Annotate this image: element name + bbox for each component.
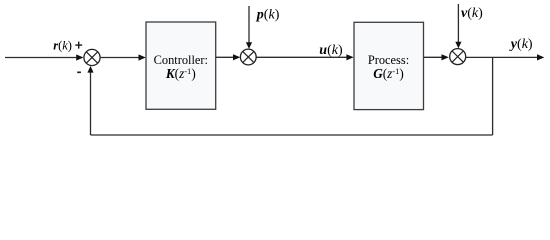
process block U2: G(z^-1) xyxy=(354,22,424,109)
wire input r(k) into summing junction S1 xyxy=(5,54,84,60)
feedback bottom wire xyxy=(91,134,493,136)
feedback wire up into S1 xyxy=(87,66,93,135)
disturbance input p(k) arrow into S2 xyxy=(246,6,252,49)
svg-text:y(k): y(k) xyxy=(509,37,533,52)
plus sign at S1 xyxy=(75,42,82,49)
summing junction S2 xyxy=(240,49,256,65)
svg-text:G(z-1): G(z-1) xyxy=(373,66,404,81)
output wire y(k) xyxy=(466,54,545,60)
controller block U1: K(z^-1) xyxy=(146,22,216,109)
wire controller to summing junction S2 xyxy=(216,54,241,60)
svg-text:v(k): v(k) xyxy=(461,6,483,21)
minus sign at S1 xyxy=(77,71,81,73)
svg-text:u(k): u(k) xyxy=(319,43,343,58)
svg-text:r(k): r(k) xyxy=(53,39,72,53)
feedback takeoff wire down from output xyxy=(492,57,494,135)
noise input v(k) arrow into S3 xyxy=(455,4,461,48)
wire S2 to process with node u(k) xyxy=(256,54,354,60)
svg-text:p(k): p(k) xyxy=(256,8,280,23)
svg-text:K(z-1): K(z-1) xyxy=(165,66,196,81)
summing junction S3 xyxy=(450,49,466,65)
wire process to summing junction S3 xyxy=(424,54,449,60)
summing junction S1 xyxy=(84,49,100,65)
wire S1 to controller xyxy=(100,54,146,60)
